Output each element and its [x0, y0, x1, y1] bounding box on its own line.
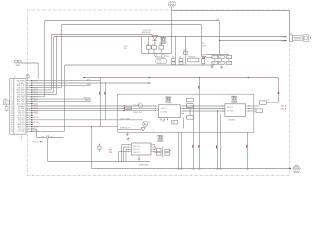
battery icon: [15, 60, 21, 65]
wire row6 up: [32, 94, 56, 96]
ground G3: [126, 132, 129, 135]
sheet logo: [292, 165, 300, 173]
svg-text:18: 18: [11, 120, 13, 122]
wire power stem: [171, 8, 173, 54]
diode D4: [141, 128, 145, 131]
power flag VIN: [168, 2, 176, 7]
svg-text:SPDT sw tact: SPDT sw tact: [32, 140, 43, 143]
svg-text:10: 10: [11, 101, 13, 103]
svg-text:R21: R21: [267, 99, 270, 101]
wire bus main: [54, 37, 286, 93]
svg-text:DRV8833: DRV8833: [228, 119, 235, 121]
svg-text:100n: 100n: [183, 50, 187, 52]
svg-text:11: 11: [11, 104, 13, 106]
wire row3 up: [32, 87, 62, 89]
connector J1: [10, 79, 26, 135]
svg-text:C16: C16: [172, 122, 175, 124]
verticals power: [175, 37, 177, 59]
svg-text:Q1: Q1: [148, 121, 150, 123]
svg-text:SS14: SS14: [202, 55, 206, 57]
capacitor C10: [212, 61, 218, 64]
wire vert x199.5: [199, 78, 201, 168]
red mark mid: [148, 77, 150, 78]
arrow left end: [83, 77, 85, 78]
op-amp U2: [158, 105, 180, 118]
svg-text:21: 21: [11, 127, 13, 129]
svg-text:P2: P2: [290, 33, 292, 35]
svg-text:C13: C13: [41, 136, 44, 138]
wire row1 long: [32, 82, 151, 84]
U3 pin right 111.0: [246, 110, 249, 112]
svg-text:1: 1: [11, 81, 12, 83]
wire row17 inside: [118, 119, 143, 121]
wire vert x92.3 down: [91, 127, 93, 169]
capacitor C13: [47, 135, 48, 138]
bottom bus: [92, 168, 291, 170]
regulator U1 oval: [156, 58, 167, 64]
resistor R4: [187, 115, 194, 119]
svg-text:MBRS340: MBRS340: [142, 32, 151, 34]
U3 pin left 106.0: [222, 106, 223, 107]
U2 pin left 106.0: [155, 105, 158, 107]
wire vert x178.5: [178, 132, 180, 167]
cap C6: [202, 58, 205, 64]
cap pair C5: [179, 58, 183, 61]
wire bus3 vert: [56, 37, 58, 95]
svg-text:2Y GND: 2Y GND: [227, 110, 234, 112]
U4 pin right 144.7: [151, 144, 154, 146]
U2 pin right 113.5: [180, 113, 183, 115]
svg-text:17-5: 17-5: [157, 62, 160, 64]
ground G4: [127, 137, 130, 140]
wire vert x193.5: [193, 106, 195, 168]
svg-text:1 25: 1 25: [282, 37, 286, 39]
U4 pin right 151.7: [151, 151, 154, 153]
wire motor low: [220, 40, 286, 42]
svg-text:17: 17: [11, 117, 13, 119]
grid wires: [215, 59, 229, 62]
svg-text:1uF: 1uF: [50, 136, 53, 138]
U2 pin bottom 167.4: [166, 117, 168, 119]
capacitor C16 under U2: [172, 121, 178, 124]
red tick v2: [103, 92, 106, 95]
svg-text:C8: C8: [219, 57, 221, 59]
resistor R5: [260, 101, 267, 104]
ground G1: [210, 65, 213, 68]
svg-text:ATMEGA328: ATMEGA328: [139, 163, 149, 166]
node bus junction: [171, 36, 172, 37]
wire D1 stem: [154, 40, 156, 45]
svg-text:FERRITE: FERRITE: [188, 57, 196, 59]
capacitor C15: [184, 51, 188, 54]
svg-text:5: 5: [11, 90, 12, 92]
wire row5 up: [32, 91, 54, 93]
wire row22 to rail: [32, 65, 215, 131]
svg-text:6: 6: [11, 92, 12, 94]
svg-text:MCLR: MCLR: [86, 100, 92, 102]
capacitor C11: [219, 61, 225, 64]
svg-text:GND: GND: [87, 84, 92, 86]
wire row7 up: [32, 96, 45, 98]
svg-text:10u: 10u: [146, 44, 149, 46]
wire row8: [32, 98, 91, 100]
wire row0: [32, 78, 101, 81]
wire vert x278.8: [266, 102, 278, 104]
U4 feeders: [122, 145, 129, 162]
svg-text:20: 20: [11, 124, 13, 126]
svg-text:C10: C10: [213, 63, 216, 65]
wire red long y77.6: [83, 78, 279, 103]
svg-text:4: 4: [11, 87, 12, 89]
svg-text:4u7: 4u7: [202, 64, 205, 66]
ground stem under U4: [138, 155, 140, 157]
svg-text:MH1: MH1: [4, 99, 8, 101]
MCU U4: [132, 143, 152, 155]
svg-text:19: 19: [11, 122, 13, 124]
resistor R6: [256, 109, 263, 112]
wire icon to connector: [21, 63, 38, 79]
svg-text:C7: C7: [213, 57, 215, 59]
U4 pin left 147.0: [128, 146, 131, 148]
transistor Q2: [138, 104, 142, 108]
connector P2: [289, 34, 311, 41]
red arrows on rows: [123, 105, 125, 106]
svg-text:OC1 D9: OC1 D9: [18, 131, 25, 133]
diode D1: [152, 36, 158, 41]
wire row13 to U2: [32, 110, 155, 112]
wire vert x220.5: [220, 115, 222, 168]
svg-text:Q2: Q2: [138, 103, 140, 105]
svg-text:4 66: 4 66: [282, 40, 286, 42]
wire vert x181.5: [181, 132, 183, 167]
svg-text:C12: C12: [227, 63, 230, 65]
red tick v1: [98, 92, 101, 95]
caps right of U4: [156, 149, 161, 152]
U3 pin right 108.5: [246, 108, 249, 110]
wire bus brown: [52, 35, 153, 90]
wire row9: [32, 100, 91, 102]
svg-text:9: 9: [11, 99, 12, 101]
U2 pin right 106.0: [180, 105, 183, 107]
wire net1 loop: [45, 21, 220, 97]
mounting part MH1: [2, 101, 9, 112]
logo burst D1: [160, 37, 167, 44]
wire vert x183.4: [182, 117, 184, 128]
svg-text:2A VCC: 2A VCC: [227, 106, 234, 109]
U4 pin right 147.0: [151, 146, 154, 148]
svg-text:PB6 PD0: PB6 PD0: [133, 146, 140, 148]
capacitor C9: [226, 55, 232, 58]
capacitor C3: [159, 46, 164, 50]
U2 pin right 111.0: [180, 110, 183, 112]
diode D2: [154, 53, 158, 57]
logo burst U4: [157, 135, 164, 142]
svg-text:3: 3: [11, 85, 12, 87]
wire vert x47.6 to MCU rail: [48, 138, 151, 161]
capacitor C12: [226, 61, 232, 64]
wire row11 to U2: [32, 105, 155, 107]
svg-text:J2: J2: [14, 77, 16, 79]
flag above connector: [26, 74, 30, 78]
ground G2: [220, 65, 223, 68]
svg-text:VSEL: VSEL: [202, 45, 207, 47]
capacitor C7: [212, 55, 218, 58]
svg-text:NET16: NET16: [33, 117, 39, 119]
wire cap feeds: [141, 37, 143, 54]
svg-text:SDI: SDI: [124, 48, 127, 50]
wire vert x217.5: [217, 111, 219, 167]
wire U2 out rows: [183, 105, 225, 107]
svg-text:23: 23: [11, 131, 13, 133]
svg-text:NET18: NET18: [33, 122, 39, 124]
wire row17 to block: [32, 119, 118, 121]
svg-text:SIG14: SIG14: [33, 113, 38, 115]
node row1 branch: [105, 82, 106, 83]
wire row12 to U2: [32, 107, 155, 109]
LED circle: [161, 54, 164, 57]
diode D3 red: [202, 57, 206, 59]
red ticks on verticals: [191, 145, 194, 148]
U2 pin left 110.6: [155, 110, 158, 112]
resistor R2: [125, 107, 132, 110]
logo burst U3: [231, 96, 238, 103]
red arrow row1 end: [149, 82, 151, 83]
U3 pin left 111.0: [222, 111, 223, 112]
svg-text:1u: 1u: [152, 44, 154, 46]
wire vert x105.8: [105, 83, 107, 120]
capacitor C8: [219, 55, 225, 58]
wire net2 loop: [62, 25, 202, 88]
wire top rail: [172, 11, 290, 36]
svg-text:MOSI_3V3: MOSI_3V3: [134, 112, 142, 114]
bottom cluster left: [32, 129, 63, 138]
svg-text:PB7 PD1: PB7 PD1: [133, 149, 140, 151]
wire U3 out: [249, 105, 260, 107]
svg-text:1A VCC: 1A VCC: [161, 107, 168, 110]
block box: [118, 94, 254, 132]
resistor R3b: [187, 98, 194, 102]
U2 pin left 108.3: [155, 107, 158, 109]
node row20: [91, 126, 92, 127]
svg-text:22: 22: [11, 129, 13, 131]
svg-text:OUT_A: OUT_A: [281, 105, 288, 108]
svg-text:22p: 22p: [179, 57, 182, 59]
U4 pin left 144.7: [128, 144, 131, 146]
wire vert x247.5: [247, 132, 249, 167]
sheet border frame: [28, 10, 290, 176]
svg-text:C9: C9: [227, 57, 229, 59]
U3 pin right 106.0: [246, 105, 249, 107]
svg-text:22p: 22p: [172, 57, 175, 59]
wire diode to grid: [206, 57, 212, 59]
U3 pin left 108.5: [222, 108, 223, 109]
svg-text:100n: 100n: [159, 44, 163, 46]
cap pair C4: [172, 58, 176, 61]
logo burst U2: [165, 96, 172, 103]
capacitor C1: [146, 46, 151, 50]
crystal X1: [165, 149, 169, 152]
wire row4 up: [32, 89, 52, 91]
svg-text:2: 2: [11, 83, 12, 85]
wire row2: [32, 84, 91, 86]
U2 pin right 108.5: [180, 108, 183, 110]
U2 pin bottom 164.2: [163, 117, 165, 119]
svg-text:7: 7: [11, 94, 12, 96]
wire row21 inside: [118, 128, 141, 130]
U4 pin right 149.4: [151, 148, 154, 150]
op-amp U3: [225, 104, 246, 117]
resistor R10 wide: [188, 58, 199, 62]
wire vert x190: [189, 108, 191, 116]
svg-text:OUT_B: OUT_B: [281, 109, 288, 111]
U4 pin left 151.7: [128, 151, 131, 153]
dashed stub below connector: [21, 134, 23, 140]
svg-text:14: 14: [11, 110, 13, 112]
rail y53.4: [142, 53, 172, 55]
svg-text:15: 15: [11, 113, 13, 115]
wire vert x100.7: [100, 81, 102, 127]
capacitor C2: [152, 46, 157, 50]
svg-text:GND VCC: GND VCC: [133, 152, 142, 154]
resistor R3: [187, 104, 194, 108]
transistor Q1: [143, 121, 148, 126]
svg-text:13: 13: [11, 108, 13, 110]
U2 pin bottom 161: [160, 117, 162, 119]
svg-text:C11: C11: [219, 63, 222, 65]
svg-text:1Y GND: 1Y GND: [161, 111, 168, 113]
wires U4 to X1: [154, 146, 156, 148]
U4 pin left 149.4: [128, 148, 131, 150]
svg-text:12: 12: [11, 106, 13, 108]
capacitor C14: [99, 144, 100, 145]
wire row20 brown long: [32, 126, 118, 128]
svg-text:8: 8: [11, 97, 12, 99]
svg-text:16: 16: [11, 115, 13, 117]
